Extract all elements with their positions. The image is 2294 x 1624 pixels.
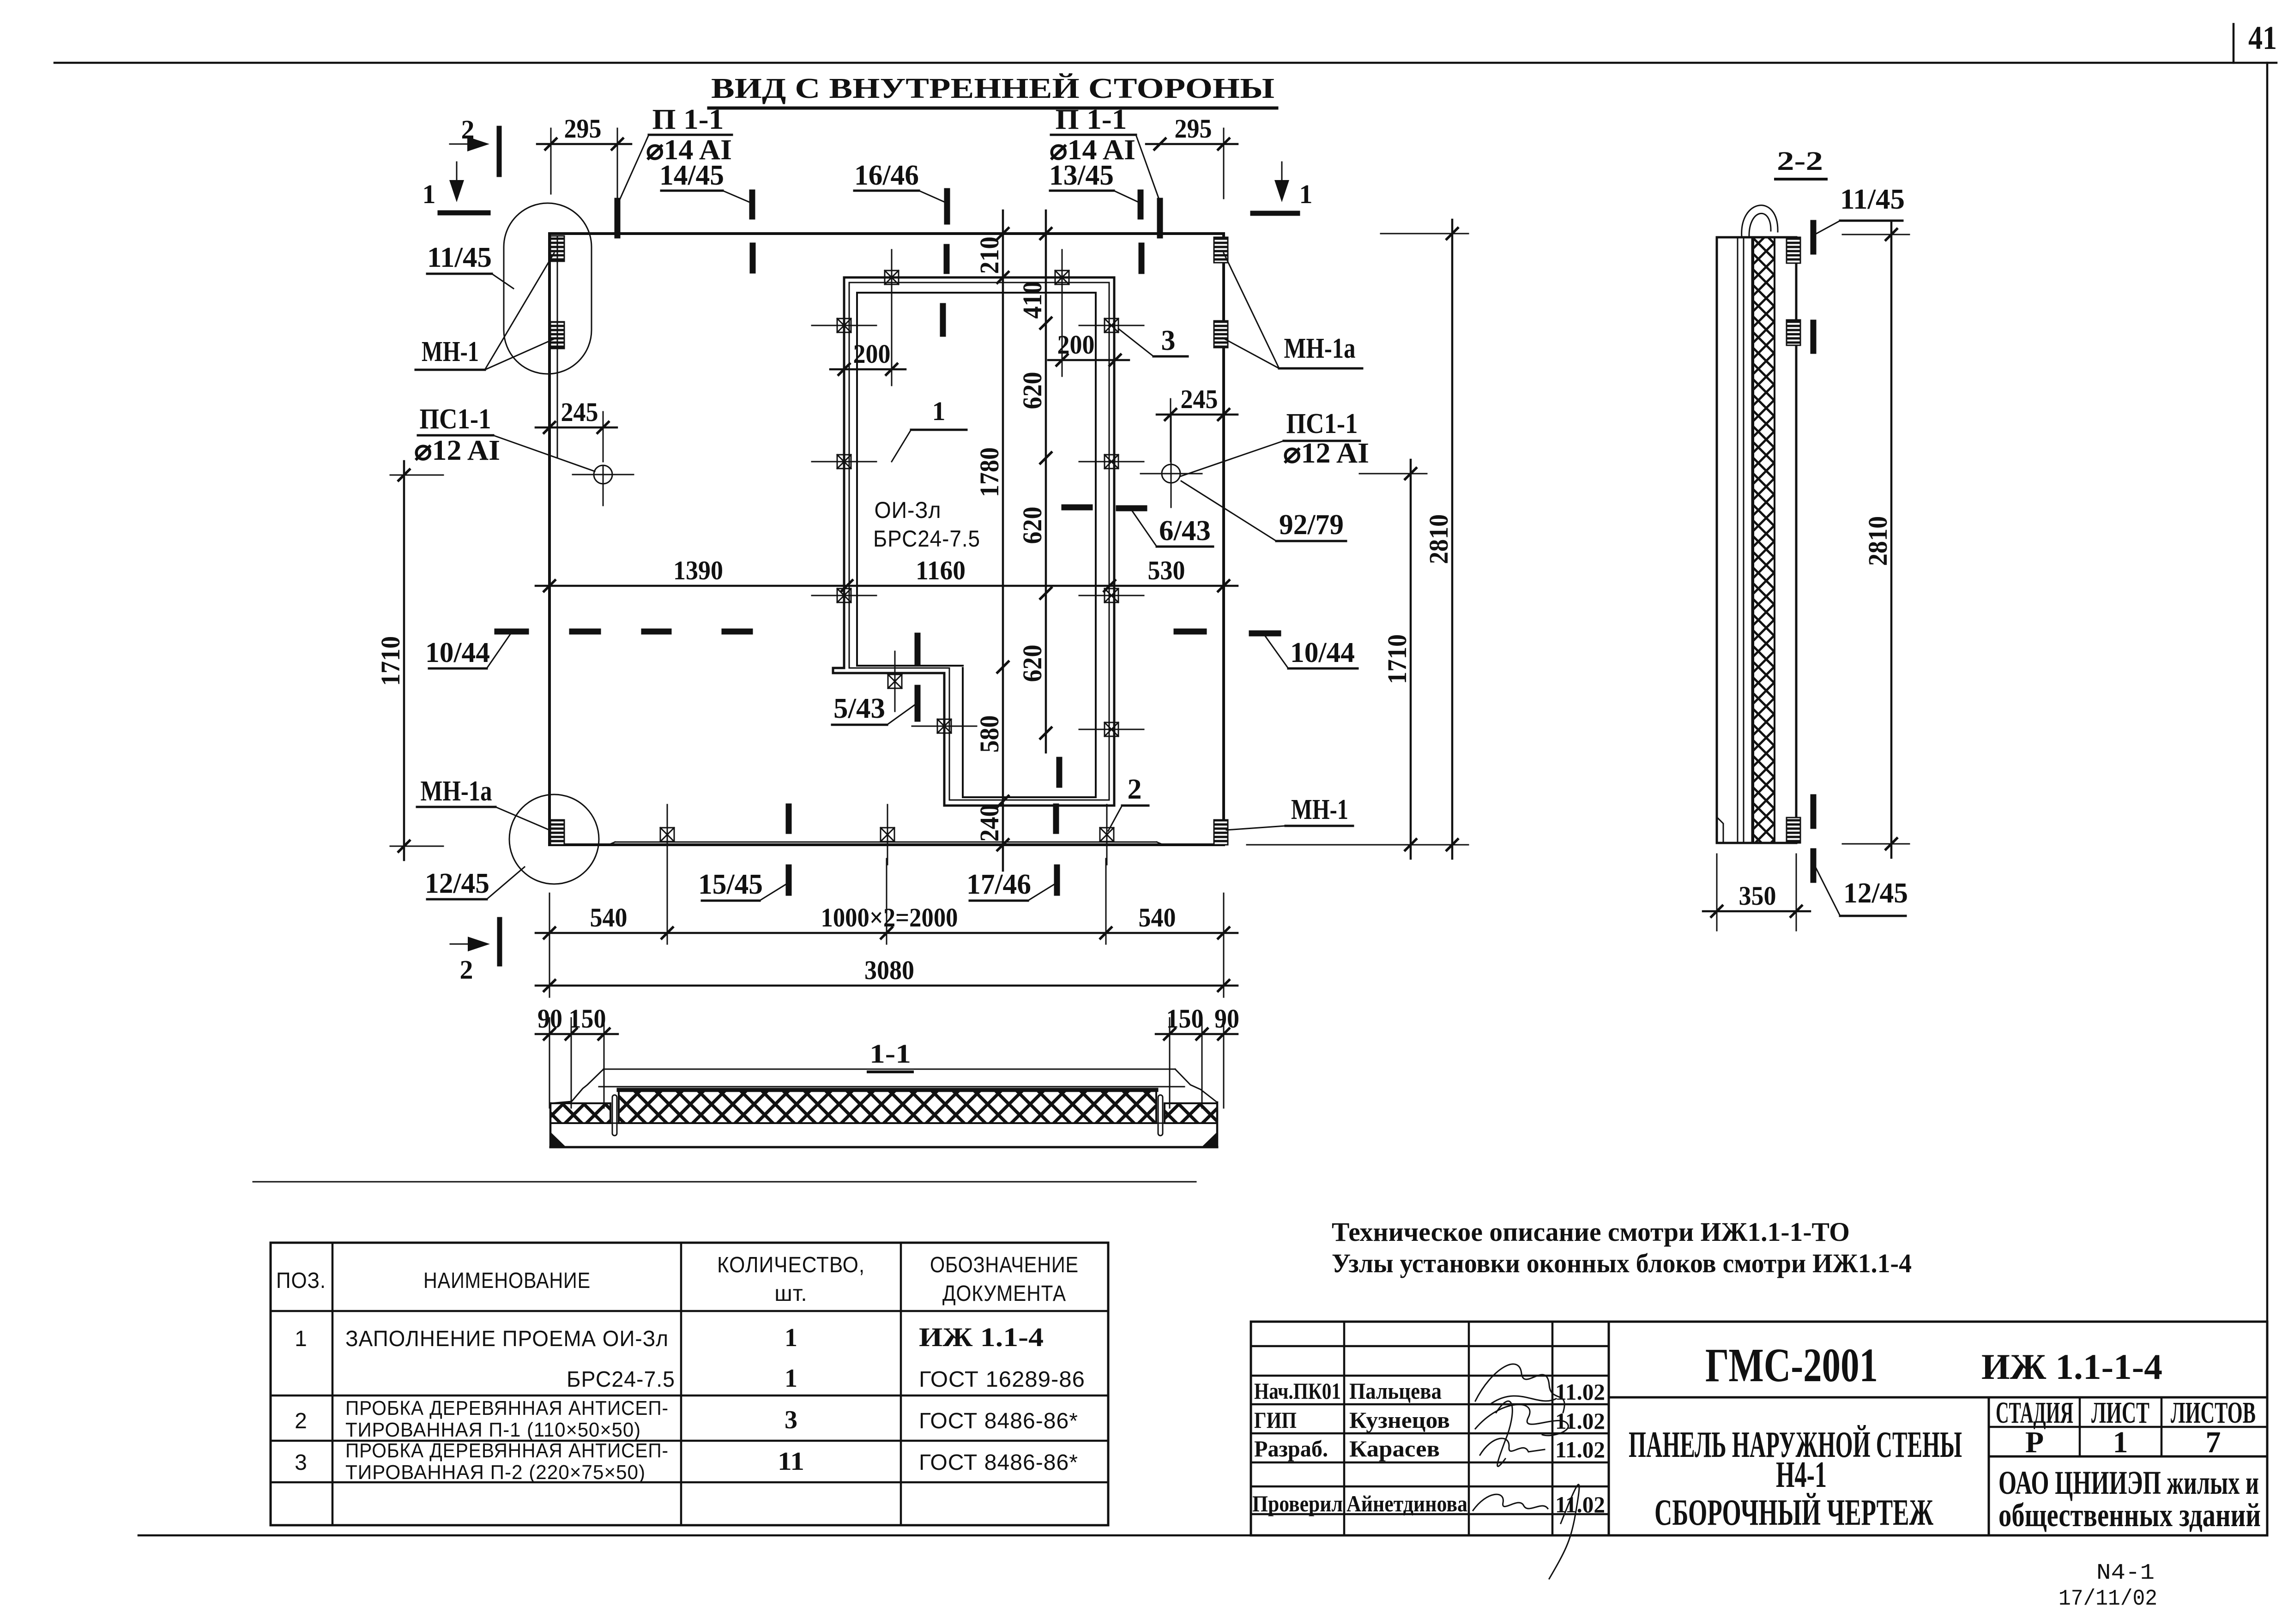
svg-text:1: 1 bbox=[785, 1364, 797, 1393]
svg-text:11.02: 11.02 bbox=[1555, 1492, 1605, 1517]
svg-text:N4-1: N4-1 bbox=[2096, 1561, 2155, 1586]
section 2-2 title bbox=[1775, 146, 1826, 179]
svg-text:6/43: 6/43 bbox=[1159, 515, 1211, 547]
svg-text:ГОСТ 16289-86: ГОСТ 16289-86 bbox=[919, 1367, 1085, 1392]
svg-text:СТАДИЯ: СТАДИЯ bbox=[1996, 1396, 2073, 1430]
svg-text:⌀12 AI: ⌀12 AI bbox=[414, 435, 500, 466]
svg-text:15/45: 15/45 bbox=[698, 869, 763, 900]
svg-text:1390: 1390 bbox=[673, 555, 723, 585]
title IZh 1.1-1-4 bbox=[1981, 1347, 2162, 1387]
svg-text:3080: 3080 bbox=[864, 955, 914, 985]
label 6/43 bbox=[1132, 511, 1213, 547]
svg-text:ЗАПОЛНЕНИЕ ПРОЕМА ОИ-Зл: ЗАПОЛНЕНИЕ ПРОЕМА ОИ-Зл bbox=[345, 1327, 669, 1351]
page top rule bbox=[54, 62, 2276, 64]
note line 1 bbox=[1332, 1217, 1850, 1247]
svg-text:5/43: 5/43 bbox=[833, 693, 885, 724]
svg-text:12/45: 12/45 bbox=[425, 868, 489, 899]
ticks 6/43 bbox=[1064, 507, 1144, 508]
svg-text:1710: 1710 bbox=[1382, 634, 1412, 684]
svg-text:СБОРОЧНЫЙ ЧЕРТЕЖ: СБОРОЧНЫЙ ЧЕРТЕЖ bbox=[1654, 1492, 1933, 1533]
plugs bottom edge bbox=[660, 805, 1114, 865]
svg-text:1000×2=2000: 1000×2=2000 bbox=[821, 902, 958, 932]
svg-text:11: 11 bbox=[778, 1447, 804, 1476]
label 11/45 panel bbox=[427, 242, 513, 289]
svg-text:МН-1: МН-1 bbox=[422, 336, 479, 367]
title block signatures column texts bbox=[1252, 1378, 1605, 1517]
section 2-2 body bbox=[1717, 237, 1796, 843]
dim chain 540-2000-540 bbox=[536, 859, 1238, 997]
parts row 1 bbox=[295, 1322, 1085, 1393]
svg-text:150: 150 bbox=[569, 1004, 606, 1034]
label 14/45 bbox=[659, 160, 752, 203]
svg-text:МН-1а: МН-1а bbox=[1284, 333, 1356, 364]
label MN-1 bottom-right bbox=[1226, 794, 1353, 830]
svg-text:11/45: 11/45 bbox=[1840, 184, 1905, 215]
svg-text:14/45: 14/45 bbox=[659, 160, 724, 191]
svg-text:Разраб.: Разраб. bbox=[1254, 1436, 1328, 1462]
anchor centerline left bbox=[557, 236, 558, 457]
plugs right frame bbox=[1079, 319, 1144, 736]
dim 150-90 right bbox=[1156, 1004, 1239, 1108]
tick 13/45 bbox=[1141, 192, 1141, 271]
anchor MN-1a top-right lower bbox=[1214, 321, 1228, 348]
label 12/45 bottom-left bbox=[425, 867, 525, 899]
section mark 1 top-right bbox=[1253, 162, 1313, 213]
panel outline bbox=[549, 234, 1224, 845]
svg-text:1: 1 bbox=[932, 396, 946, 426]
label 10/44 right bbox=[1265, 636, 1358, 668]
parts table header bbox=[276, 1253, 1079, 1306]
anchor MN-1 top-left lower bbox=[550, 322, 564, 349]
svg-text:2: 2 bbox=[295, 1409, 308, 1433]
label MN-1a top-right bbox=[1224, 253, 1362, 368]
svg-text:2810: 2810 bbox=[1863, 516, 1893, 566]
svg-text:шт.: шт. bbox=[774, 1281, 808, 1306]
signatures squiggles bbox=[1473, 1364, 1579, 1579]
svg-text:БРС24-7.5: БРС24-7.5 bbox=[873, 526, 980, 552]
label MN-1 top-left bbox=[416, 253, 554, 370]
svg-text:ВИД С ВНУТРЕННЕЙ СТОРОНЫ: ВИД С ВНУТРЕННЕЙ СТОРОНЫ bbox=[711, 73, 1274, 104]
lifting loop mark left bbox=[615, 201, 621, 235]
tick 16/46 bbox=[947, 191, 947, 271]
detail capsule MN-1 bbox=[504, 203, 592, 374]
section mark 2 top bbox=[450, 114, 499, 174]
section 2-2 lifting loop bbox=[1742, 205, 1778, 237]
dim 350 sect bbox=[1703, 854, 1810, 931]
label 16/46 bbox=[854, 160, 947, 203]
window sill ledge bbox=[833, 668, 844, 673]
svg-text:ГОСТ 8486-86*: ГОСТ 8486-86* bbox=[919, 1450, 1078, 1475]
svg-text:МН-1а: МН-1а bbox=[421, 776, 492, 807]
svg-text:210: 210 bbox=[974, 237, 1004, 274]
section 1-1 insulation main bbox=[619, 1089, 1156, 1123]
detail circle bottom-left bbox=[509, 794, 599, 884]
svg-text:1: 1 bbox=[1299, 179, 1313, 209]
doc code N4-1 bbox=[2096, 1561, 2155, 1586]
dim chain A 210-1780-580-240 bbox=[974, 211, 1008, 871]
title GMS-2001 bbox=[1705, 1339, 1878, 1392]
svg-text:ОИ-Зл: ОИ-Зл bbox=[875, 497, 942, 523]
svg-text:ПС1-1: ПС1-1 bbox=[1286, 408, 1358, 439]
title stage cells bbox=[1996, 1396, 2256, 1459]
drawing field separator above table bbox=[253, 1181, 1196, 1183]
svg-text:90: 90 bbox=[1214, 1004, 1239, 1034]
svg-text:245: 245 bbox=[561, 397, 598, 427]
svg-text:530: 530 bbox=[1148, 555, 1185, 585]
svg-text:2-2: 2-2 bbox=[1777, 146, 1823, 176]
svg-text:13/45: 13/45 bbox=[1049, 160, 1114, 191]
svg-text:Р: Р bbox=[2025, 1426, 2044, 1459]
svg-text:ОБОЗНАЧЕНИЕ: ОБОЗНАЧЕНИЕ bbox=[930, 1253, 1079, 1277]
label 12/45 sect bbox=[1815, 866, 1908, 916]
dim 2810 sect bbox=[1842, 221, 1909, 858]
view title bbox=[709, 73, 1277, 108]
svg-text:11.02: 11.02 bbox=[1555, 1379, 1605, 1405]
plug under sill bbox=[888, 651, 902, 711]
section 1-1 insulation right bbox=[1165, 1103, 1217, 1123]
tick 14/45 bbox=[752, 192, 753, 271]
svg-text:1160: 1160 bbox=[916, 555, 966, 585]
svg-text:295: 295 bbox=[1175, 114, 1212, 144]
svg-text:350: 350 bbox=[1739, 881, 1776, 911]
svg-text:Проверил: Проверил bbox=[1252, 1491, 1343, 1516]
svg-text:1-1: 1-1 bbox=[869, 1039, 911, 1069]
leader MN-1a second bbox=[1223, 338, 1279, 368]
tick inside window top bbox=[940, 306, 946, 334]
tick window lower bbox=[1056, 760, 1062, 785]
window mark leader 1 bbox=[892, 396, 966, 462]
section 1-1 insulation left bbox=[550, 1103, 610, 1123]
sheet number divider bbox=[2233, 24, 2235, 63]
svg-text:П 1-1: П 1-1 bbox=[1056, 104, 1127, 135]
dim 295 left bbox=[537, 114, 631, 198]
svg-text:540: 540 bbox=[590, 902, 628, 932]
label 17/46 bbox=[966, 869, 1057, 901]
dim 2810 main bbox=[1247, 220, 1468, 859]
anchor MN-1a bottom-left bbox=[550, 820, 564, 845]
svg-text:⌀12 AI: ⌀12 AI bbox=[1283, 438, 1369, 469]
svg-text:ГОСТ 8486-86*: ГОСТ 8486-86* bbox=[919, 1409, 1078, 1433]
svg-text:10/44: 10/44 bbox=[1290, 637, 1355, 668]
label 10/44 left bbox=[425, 634, 510, 668]
dim 295 right bbox=[1146, 114, 1238, 198]
svg-text:ДОКУМЕНТА: ДОКУМЕНТА bbox=[942, 1281, 1066, 1306]
mid ticks row bbox=[497, 632, 1278, 633]
svg-text:240: 240 bbox=[974, 805, 1004, 842]
page bottom rule bbox=[139, 1534, 2267, 1537]
label 3 plug bbox=[1118, 325, 1188, 356]
window opening inner edge bbox=[849, 283, 1109, 800]
ticks 15/45 17/46 bbox=[789, 867, 1057, 893]
section 1-1 clips bbox=[612, 1095, 1163, 1136]
plug on step bbox=[912, 719, 977, 733]
lifting loop mark right bbox=[1157, 201, 1163, 235]
svg-text:17/46: 17/46 bbox=[966, 869, 1031, 900]
svg-text:БРС24-7.5: БРС24-7.5 bbox=[567, 1367, 675, 1392]
parts row 2 bbox=[295, 1397, 1078, 1441]
svg-text:ТИРОВАННАЯ П-2 (220×75×50): ТИРОВАННАЯ П-2 (220×75×50) bbox=[345, 1461, 646, 1484]
svg-text:3: 3 bbox=[1161, 325, 1176, 356]
anchor MN-1 bottom-right bbox=[1214, 820, 1228, 845]
svg-text:Н4-1: Н4-1 bbox=[1776, 1455, 1827, 1495]
label 15/45 bbox=[698, 869, 789, 901]
label MN-1a bottom-left bbox=[417, 776, 549, 830]
svg-text:10/44: 10/44 bbox=[425, 637, 490, 668]
svg-text:1: 1 bbox=[423, 179, 436, 209]
dim chain 1390-1160-530 bbox=[536, 555, 1238, 591]
svg-text:ОАО ЦНИИЭП жилых и: ОАО ЦНИИЭП жилых и bbox=[1998, 1464, 2259, 1501]
label 5/43 bbox=[832, 693, 917, 725]
svg-text:Карасев: Карасев bbox=[1349, 1436, 1440, 1462]
title block grid bbox=[1251, 1322, 2267, 1535]
label PS1-1 left bbox=[414, 403, 595, 471]
svg-text:1: 1 bbox=[2113, 1426, 2128, 1459]
svg-text:Техническое описание смотри ИЖ: Техническое описание смотри ИЖ1.1-1-ТО bbox=[1332, 1217, 1850, 1247]
section 1-1 outline bbox=[550, 1069, 1217, 1147]
plug top frame left bbox=[885, 250, 899, 385]
svg-text:17/11/02: 17/11/02 bbox=[2059, 1587, 2157, 1612]
svg-text:Пальцева: Пальцева bbox=[1349, 1378, 1442, 1404]
svg-text:ТИРОВАННАЯ П-1 (110×50×50): ТИРОВАННАЯ П-1 (110×50×50) bbox=[345, 1419, 641, 1441]
svg-text:ГМС-2001: ГМС-2001 bbox=[1705, 1339, 1878, 1392]
plugs left frame bbox=[812, 319, 876, 602]
svg-text:41: 41 bbox=[2248, 19, 2277, 56]
svg-text:ПРОБКА ДЕРЕВЯННАЯ АНТИСЕП-: ПРОБКА ДЕРЕВЯННАЯ АНТИСЕП- bbox=[345, 1439, 669, 1462]
svg-text:3: 3 bbox=[295, 1450, 308, 1475]
svg-text:Узлы установки оконных блоков: Узлы установки оконных блоков смотри ИЖ1… bbox=[1332, 1248, 1912, 1278]
section mark 1 top-left bbox=[423, 162, 489, 213]
svg-text:540: 540 bbox=[1139, 902, 1176, 932]
section 2-2 weld ticks bbox=[1811, 223, 1817, 880]
label 2 plug bbox=[1108, 774, 1148, 831]
parts row 3 bbox=[295, 1439, 1078, 1484]
svg-text:11/45: 11/45 bbox=[427, 242, 492, 273]
svg-text:общественных зданий: общественных зданий bbox=[1998, 1497, 2261, 1534]
dim 200 left bbox=[830, 339, 906, 375]
dim 245 left bbox=[536, 397, 617, 462]
label 11/45 sect bbox=[1815, 184, 1905, 235]
anchor MN-1 top-left upper bbox=[550, 236, 564, 261]
leader MN-1 second bbox=[485, 338, 556, 370]
svg-text:Нач.ПК01: Нач.ПК01 bbox=[1254, 1378, 1341, 1404]
svg-text:ГИП: ГИП bbox=[1254, 1407, 1297, 1433]
PS1-1 socket right bbox=[1141, 415, 1202, 507]
parts table grid bbox=[271, 1243, 1108, 1525]
ticks above bottom edge bbox=[789, 806, 1056, 831]
svg-text:1780: 1780 bbox=[974, 447, 1004, 497]
dim 200 right bbox=[1048, 330, 1129, 366]
dim chain B 410-620-620-620 bbox=[1017, 211, 1051, 752]
section 2-2 anchors bbox=[1787, 237, 1800, 843]
svg-text:ПОЗ.: ПОЗ. bbox=[276, 1269, 326, 1293]
svg-text:ПРОБКА ДЕРЕВЯННАЯ АНТИСЕП-: ПРОБКА ДЕРЕВЯННАЯ АНТИСЕП- bbox=[345, 1397, 669, 1419]
svg-text:92/79: 92/79 bbox=[1279, 509, 1344, 541]
svg-text:620: 620 bbox=[1017, 372, 1047, 409]
svg-text:ИЖ 1.1-4: ИЖ 1.1-4 bbox=[919, 1322, 1044, 1352]
PS1-1 socket left bbox=[573, 465, 634, 505]
svg-text:МН-1: МН-1 bbox=[1291, 794, 1348, 825]
dim 245 right bbox=[1157, 384, 1238, 462]
window opening outer edge bbox=[833, 277, 1114, 806]
svg-text:ЛИСТОВ: ЛИСТОВ bbox=[2171, 1396, 2256, 1430]
label 13/45 bbox=[1049, 160, 1141, 203]
svg-text:НАИМЕНОВАНИЕ: НАИМЕНОВАНИЕ bbox=[423, 1269, 591, 1293]
svg-text:11.02: 11.02 bbox=[1555, 1437, 1605, 1462]
svg-text:150: 150 bbox=[1166, 1004, 1204, 1034]
svg-text:200: 200 bbox=[1057, 330, 1095, 360]
doc date bbox=[2059, 1587, 2157, 1612]
svg-text:16/46: 16/46 bbox=[854, 160, 919, 191]
svg-text:2: 2 bbox=[1128, 774, 1142, 805]
anchor MN-1a top-right upper bbox=[1214, 237, 1228, 263]
svg-text:580: 580 bbox=[974, 716, 1004, 753]
ticks 5/43 bbox=[915, 636, 921, 719]
svg-text:1: 1 bbox=[295, 1327, 308, 1351]
dim 1710 left bbox=[375, 461, 443, 860]
svg-text:410: 410 bbox=[1017, 282, 1047, 319]
svg-text:2810: 2810 bbox=[1424, 514, 1454, 564]
svg-text:1: 1 bbox=[785, 1323, 797, 1352]
svg-text:ЛИСТ: ЛИСТ bbox=[2091, 1396, 2149, 1430]
svg-text:П 1-1: П 1-1 bbox=[652, 104, 724, 135]
panel bottom inner profile bbox=[609, 842, 1163, 845]
section mark 2 bottom bbox=[450, 920, 500, 985]
svg-text:ПС1-1: ПС1-1 bbox=[420, 403, 491, 435]
label 92/79 bbox=[1181, 481, 1346, 541]
svg-text:620: 620 bbox=[1017, 645, 1047, 682]
plug top frame right bbox=[1055, 250, 1069, 376]
title panel name bbox=[1629, 1425, 1962, 1533]
sheet number 41 bbox=[2248, 19, 2277, 56]
window type OI-3l bbox=[875, 497, 942, 523]
dim 3080 bbox=[536, 955, 1238, 991]
svg-text:Кузнецов: Кузнецов bbox=[1349, 1407, 1450, 1433]
label P1-1 d14 right bbox=[1050, 104, 1160, 202]
svg-text:7: 7 bbox=[2206, 1426, 2221, 1459]
section 1-1 title bbox=[868, 1039, 912, 1072]
svg-text:1710: 1710 bbox=[375, 636, 405, 686]
svg-text:ИЖ 1.1-1-4: ИЖ 1.1-1-4 bbox=[1981, 1347, 2162, 1387]
note line 2 bbox=[1332, 1248, 1912, 1278]
svg-text:12/45: 12/45 bbox=[1843, 878, 1908, 909]
label P1-1 d14 left bbox=[619, 104, 732, 202]
svg-text:245: 245 bbox=[1181, 384, 1218, 414]
dim 1710 right bbox=[1359, 460, 1427, 859]
vent block BRS24-7.5 bbox=[873, 526, 980, 552]
svg-text:200: 200 bbox=[853, 339, 891, 369]
svg-text:КОЛИЧЕСТВО,: КОЛИЧЕСТВО, bbox=[717, 1253, 865, 1277]
page right border bbox=[2266, 63, 2269, 1535]
svg-text:295: 295 bbox=[564, 114, 602, 144]
svg-text:Айнетдинова: Айнетдинова bbox=[1346, 1491, 1467, 1516]
title org name bbox=[1998, 1464, 2261, 1534]
svg-text:620: 620 bbox=[1017, 507, 1047, 544]
label PS1-1 right bbox=[1180, 408, 1369, 476]
svg-text:2: 2 bbox=[460, 955, 473, 985]
window block outline bbox=[857, 293, 1096, 797]
svg-text:3: 3 bbox=[785, 1406, 797, 1434]
dim 90-150 left bbox=[536, 1004, 618, 1108]
